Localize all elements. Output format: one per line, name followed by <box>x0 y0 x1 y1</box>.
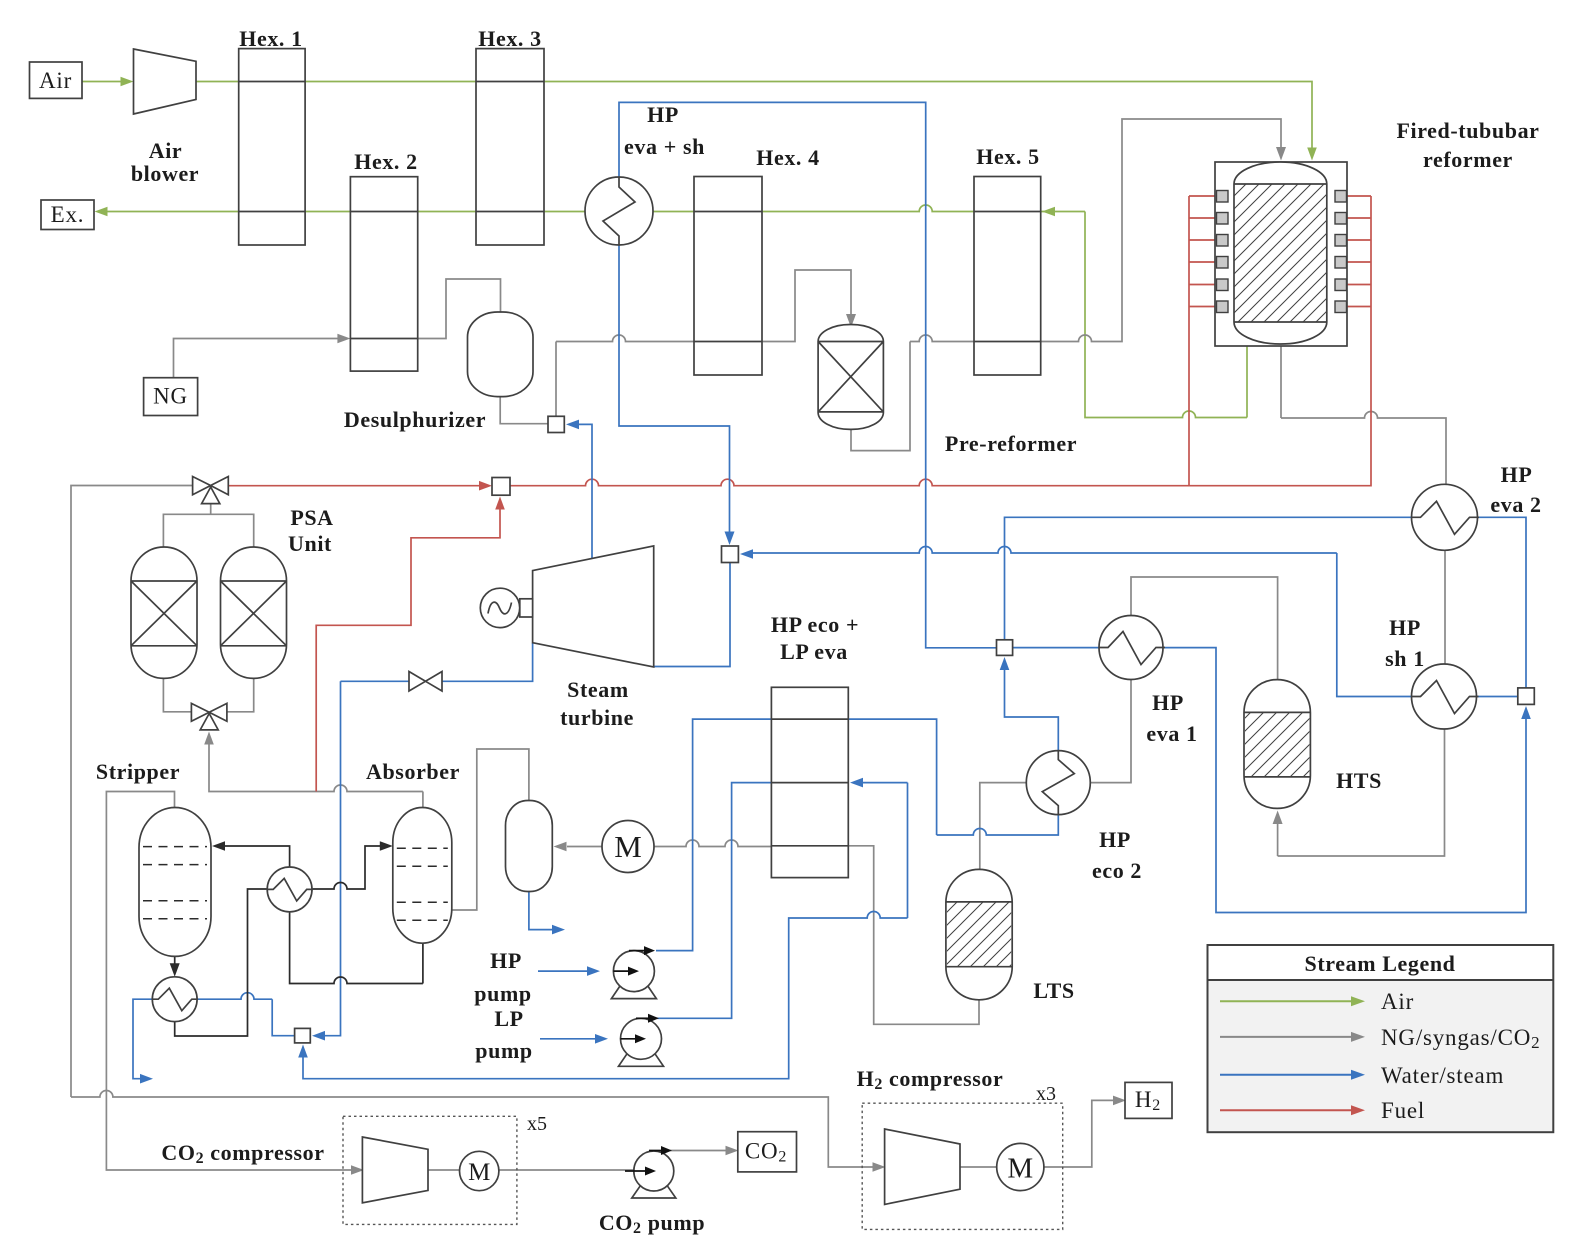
generator coupling sleeve <box>520 599 533 617</box>
svg-text:CO2 pump: CO2 pump <box>599 1210 705 1237</box>
svg-text:LP eva: LP eva <box>780 639 848 664</box>
mixer square S3 steam to turbine <box>722 546 739 563</box>
node Ex exhaust box <box>41 200 94 230</box>
turbine steam turbine <box>533 546 654 667</box>
heat-exchanger Hex2 <box>350 177 417 371</box>
wire air main from blower through Hex1 and Hex3 to reformer top <box>196 82 1312 151</box>
svg-text:Pre-reformer: Pre-reformer <box>945 431 1077 456</box>
arrowhead fuel into mixer S2 left <box>479 481 492 491</box>
mixer square S5 HP steam <box>1518 688 1535 705</box>
arrowhead condensate out right <box>140 1074 153 1084</box>
vessel pre-reformer <box>818 325 883 430</box>
node H2 product box <box>1125 1082 1172 1118</box>
valve PSA top 3-way <box>193 477 229 504</box>
vessel stripper column <box>139 808 211 957</box>
vessel absorber column <box>393 808 452 944</box>
node Air source box <box>30 62 83 98</box>
arrowhead stripper bottom into reboiler <box>170 963 180 977</box>
heat-exchanger Hex3 <box>476 49 544 245</box>
legend air row <box>1220 1000 1352 1002</box>
wire Hex4 to pre-reformer top <box>762 270 851 342</box>
svg-text:Air: Air <box>1381 989 1414 1014</box>
wire steam eva+sh top loop to mixer S4 <box>619 102 997 647</box>
wire Hex2 to desulphurizer top <box>418 279 501 339</box>
wire HP pump discharge to rect <box>656 719 771 951</box>
burner squares left column <box>1217 191 1229 313</box>
vessel desulphurizer <box>468 312 534 397</box>
arrowhead into pre-reformer top <box>846 314 856 328</box>
wire turbine extraction through valve to reboiler mixer <box>323 643 533 1036</box>
svg-text:Unit: Unit <box>288 531 332 556</box>
svg-text:PSA: PSA <box>290 505 333 530</box>
svg-text:NG/syngas/CO2: NG/syngas/CO2 <box>1381 1025 1540 1052</box>
wire H2 motor to H2 box <box>1044 1100 1114 1167</box>
svg-text:Air: Air <box>149 138 183 163</box>
svg-text:Water/steam: Water/steam <box>1381 1063 1504 1088</box>
node NG source box <box>144 378 198 416</box>
burner squares right column <box>1335 191 1347 313</box>
svg-text:HP: HP <box>1389 615 1421 640</box>
heat-exchanger circle HP eco 2 <box>1026 751 1090 815</box>
wire HP eco 2 left to LTS top <box>980 783 1026 870</box>
svg-text:reformer: reformer <box>1423 147 1513 172</box>
wire HP eva1 right to mixer S5 bottom <box>1163 648 1526 913</box>
vessel LTS shift reactor <box>946 869 1012 999</box>
motor M circle H2 compressor <box>997 1143 1044 1190</box>
svg-text:Absorber: Absorber <box>366 759 460 784</box>
arrowhead up into mixer S4 bottom <box>1000 657 1010 670</box>
wire PSA bottom manifold <box>163 678 253 711</box>
vessel HTS shift reactor <box>1244 680 1310 809</box>
svg-text:Air: Air <box>39 68 72 93</box>
heat-exchanger circle stripper reboiler <box>152 977 198 1022</box>
heat-exchanger Hex5 <box>974 177 1041 376</box>
svg-text:Stripper: Stripper <box>96 759 180 784</box>
svg-text:eva 2: eva 2 <box>1490 492 1541 517</box>
arrowhead solvent into absorber left <box>380 841 393 851</box>
wire PSA top manifold <box>163 504 253 547</box>
wire M cooler to knockout vessel <box>567 846 602 848</box>
RED-LINES <box>228 196 1371 792</box>
svg-text:eva 1: eva 1 <box>1146 721 1197 746</box>
wire absorber top riser <box>422 792 424 808</box>
wire knockout top to absorber right <box>452 749 529 910</box>
wire H2 compressor to M motor <box>960 1166 997 1168</box>
wire exchanger block to M cooler <box>654 840 771 847</box>
pump LP pump <box>619 1014 664 1067</box>
wire reformer outlet down to HP eva 2 <box>1281 346 1446 485</box>
wire Hex5 to reformer top <box>1041 119 1281 342</box>
wire knockout vessel bottom drain <box>529 892 553 930</box>
generator circle <box>480 588 519 627</box>
node CO2 product box <box>738 1132 797 1172</box>
wire LTS bottom to exchanger block <box>848 846 979 1025</box>
vessel knockout drum <box>506 801 553 892</box>
vessel PSA adsorber 2 <box>221 547 287 678</box>
wire mixer S4 to HP eva1 <box>1013 647 1099 649</box>
legend water row <box>1220 1074 1352 1076</box>
svg-text:eco 2: eco 2 <box>1092 858 1142 883</box>
wire rich solvent absorber bottom to exchanger <box>290 912 423 984</box>
svg-text:x3: x3 <box>1036 1083 1056 1105</box>
svg-text:pump: pump <box>474 981 531 1006</box>
svg-text:HP: HP <box>647 102 679 127</box>
arrowhead solvent into stripper right <box>212 841 225 851</box>
wire steam eva+sh bottom to mixer S3 top <box>619 245 730 534</box>
arrowhead into CO2 compressor <box>351 1165 364 1175</box>
heat-exchanger Hex4 <box>694 177 762 376</box>
svg-text:turbine: turbine <box>560 705 634 730</box>
BLACK-LINES <box>175 846 423 1036</box>
wire CO2 pump discharge to CO2 box <box>670 1150 727 1152</box>
svg-text:HP: HP <box>490 948 522 973</box>
motor M circle CO2 compressor <box>460 1151 499 1190</box>
compressor air blower <box>134 49 197 114</box>
valve PSA bottom 3-way <box>191 703 227 730</box>
svg-text:Hex. 1: Hex. 1 <box>239 26 302 51</box>
arrowhead into H2 compressor <box>873 1162 886 1172</box>
wire HTS top to HP eva 1 <box>1131 577 1278 680</box>
arrowhead steam into desulph mixer S1 right <box>566 420 579 430</box>
arrowhead into knockout vessel right <box>554 842 567 852</box>
wire exhaust from reformer bottom down-left-up to Hex5 <box>1041 212 1247 418</box>
wire PSA top valve to H2 compressor <box>71 486 874 1168</box>
svg-text:pump: pump <box>475 1038 532 1063</box>
wire pre-reformer bottom to Hex5 <box>851 335 974 451</box>
wire LP pump inlet <box>540 1038 596 1040</box>
arrowhead fuel up into mixer S2 bottom <box>495 497 505 510</box>
arrowhead up into PSA bottom valve <box>204 732 214 745</box>
svg-text:HP eco +: HP eco + <box>771 612 859 637</box>
wire HP eva 2 to HP sh 1 <box>1444 551 1446 664</box>
wire lean solvent exchanger right to absorber <box>312 846 380 889</box>
mixer square S1 desulphurizer steam <box>548 416 564 432</box>
wire HP pump inlet <box>538 970 588 972</box>
heat-exchanger Hex1 <box>239 49 305 245</box>
svg-text:eva + sh: eva + sh <box>624 134 705 159</box>
svg-text:NG: NG <box>153 384 188 409</box>
mixer square S6 LP steam to reboiler <box>295 1028 311 1043</box>
arrowhead air down into reformer top <box>1307 148 1317 161</box>
svg-text:Stream Legend: Stream Legend <box>1305 951 1456 976</box>
vessel PSA adsorber 1 <box>131 547 197 678</box>
heat-exchanger circle HP eva 1 <box>1099 616 1165 680</box>
heat-exchanger HP eco + LP eva block <box>771 687 848 877</box>
svg-text:CO2 compressor: CO2 compressor <box>161 1140 324 1167</box>
arrowhead air into blower <box>121 77 134 87</box>
wire fuel tap from absorber offgas line to mixer S2 <box>316 508 500 792</box>
wire CO2 motor to CO2 pump <box>499 1169 634 1171</box>
wire CO2 compressor to M motor <box>428 1169 460 1171</box>
cooler M circle syngas <box>602 821 654 873</box>
wire steam from HP sh1 to mixer S3 right <box>753 547 1411 697</box>
arrowhead knockout drain out <box>552 925 565 935</box>
arrowhead into H2 box <box>1113 1096 1126 1106</box>
pump HP pump <box>611 946 656 999</box>
wire exhaust from HP eva+sh through Hex2 Hex1 to Ex box <box>106 211 585 213</box>
arrowhead exhaust into Ex box <box>95 207 108 217</box>
svg-text:M: M <box>468 1159 490 1186</box>
svg-text:Ex.: Ex. <box>51 202 85 227</box>
wire turbine top tap to desulphurizer mixer S1 <box>578 424 592 558</box>
arrowhead syngas into reformer top <box>1276 147 1286 161</box>
wire HP eco2 top to mixer S4 <box>1005 662 1059 751</box>
BLUE-LINES <box>133 102 1526 1078</box>
wire mixer S1 top riser to Hex4 <box>556 335 694 416</box>
reactor fired-tubular reformer outer box <box>1215 162 1347 346</box>
wire NG from NG box to Hex2 <box>174 339 339 378</box>
compressor H2 compressor dotted box <box>862 1103 1062 1229</box>
svg-text:LP: LP <box>494 1006 523 1031</box>
arrowhead left into HP eco LP eva rect <box>850 778 863 788</box>
compressor CO2 compressor dotted box <box>343 1116 517 1224</box>
legend box <box>1208 945 1554 1132</box>
heat-exchanger circle HP sh 1 <box>1412 664 1479 729</box>
wire mixer S5 to HP sh1 <box>1477 696 1518 698</box>
svg-text:Hex. 5: Hex. 5 <box>976 144 1039 169</box>
wire reboiler mixer to reboiler and condensate out <box>133 993 295 1079</box>
wire LP water from rect to LP mixer square <box>303 783 908 1079</box>
svg-text:Fuel: Fuel <box>1381 1098 1425 1123</box>
svg-text:x5: x5 <box>527 1113 547 1135</box>
wire fuel left burner header <box>1188 196 1190 486</box>
wire stripper bottom to reboiler <box>174 956 176 966</box>
legend syngas row <box>1220 1036 1352 1038</box>
arrowhead up into mixer S5 bottom <box>1521 706 1531 719</box>
wire exhaust from Hex5 to HP eva+sh circle <box>653 205 974 211</box>
GREEN-LINES <box>82 82 1312 418</box>
compressor H2 compressor trapezoid <box>885 1129 960 1204</box>
svg-text:HP: HP <box>1099 827 1131 852</box>
svg-text:M: M <box>614 829 642 864</box>
wire HP sh 1 down and left to HTS bottom <box>1278 729 1445 856</box>
wire lean solvent reboiler bottom to exchanger left <box>175 889 268 1036</box>
svg-text:HTS: HTS <box>1336 768 1382 793</box>
svg-text:Fired-tububar: Fired-tububar <box>1396 118 1539 143</box>
svg-text:Hex. 3: Hex. 3 <box>478 26 541 51</box>
svg-text:Desulphurizer: Desulphurizer <box>344 407 486 432</box>
arrowhead steam into mixer S3 top <box>725 532 735 546</box>
mixer square S2 fuel <box>492 478 510 496</box>
arrowhead up into reboiler mixer bottom <box>298 1045 308 1058</box>
wire fuel stubs right burners <box>1347 196 1372 307</box>
legend fuel row <box>1220 1109 1352 1111</box>
svg-text:blower: blower <box>131 161 199 186</box>
mixer square S4 HP water <box>997 640 1013 656</box>
arrowhead HP pump inlet <box>587 966 600 976</box>
wire fuel from PSA top valve to mixer S2 <box>228 485 480 487</box>
svg-text:Hex. 4: Hex. 4 <box>756 145 819 170</box>
wire HP eva2 left to mixer S4 top <box>1005 517 1412 640</box>
compressor CO2 compressor trapezoid <box>362 1137 428 1203</box>
svg-text:HP: HP <box>1501 462 1533 487</box>
wire fuel stubs left burners <box>1189 196 1217 307</box>
arrowhead LP pump inlet <box>595 1034 608 1044</box>
arrowline into HP eco LP eva rect right <box>862 782 908 784</box>
heat-exchanger circle HP eva 2 <box>1412 484 1480 550</box>
svg-text:LTS: LTS <box>1033 978 1074 1003</box>
heat-exchanger circle lean-rich exchanger <box>267 867 313 912</box>
wire fuel from mixer S2 to burner headers <box>510 196 1371 486</box>
wire LP pump discharge to rect <box>657 783 771 1019</box>
wire rich solvent exchanger top to stripper <box>224 846 290 867</box>
pump CO2 pump <box>625 1146 676 1198</box>
svg-text:M: M <box>1007 1153 1033 1185</box>
arrowhead exhaust into Hex5 right <box>1042 207 1055 217</box>
svg-text:Steam: Steam <box>567 677 629 702</box>
wire mixer S3 bottom to turbine <box>654 563 730 667</box>
GRAY-LINES <box>71 119 1446 1170</box>
wire HP eva 1 bottom to HP eco 2 right <box>1090 680 1131 783</box>
wire stripper top to CO2 compressor <box>106 792 353 1171</box>
svg-text:Hex. 2: Hex. 2 <box>354 149 417 174</box>
wire air from Air box to blower <box>82 81 122 83</box>
reactor reformer inner vessel with catalyst hatch <box>1234 162 1327 344</box>
arrowhead steam into mixer S3 right <box>740 549 753 559</box>
wire HP eco out to HP eco2 bottom <box>848 719 1058 835</box>
wire desulphurizer bottom to mixer square S1 <box>500 397 548 424</box>
arrowhead into reboiler mixer right <box>312 1031 325 1041</box>
arrowhead syngas up into HTS bottom <box>1273 811 1283 825</box>
heat-exchanger circle HP eva + sh <box>585 177 653 245</box>
svg-text:sh 1: sh 1 <box>1385 646 1425 671</box>
arrowhead CO2 pump to CO2 box <box>726 1146 739 1156</box>
wire absorber to PSA bottom valve <box>209 743 423 792</box>
arrowhead NG into Hex2 <box>337 334 350 344</box>
valve steam extraction <box>409 672 442 692</box>
wire HP eva2 right to mixer S5 top <box>1477 517 1526 688</box>
svg-text:HP: HP <box>1152 690 1184 715</box>
